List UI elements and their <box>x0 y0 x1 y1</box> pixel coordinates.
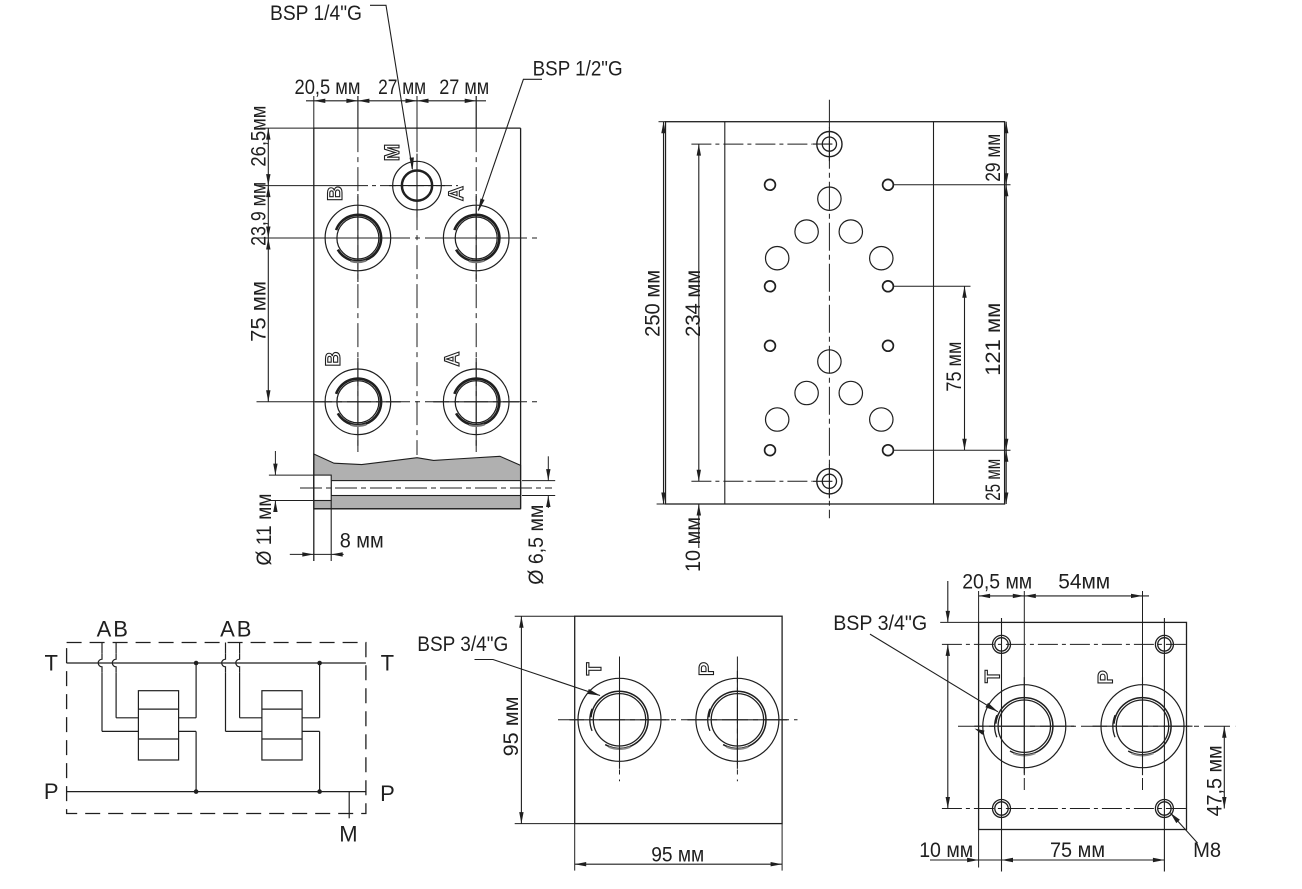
svg-text:A: A <box>97 617 112 642</box>
svg-text:BSP 3/4"G: BSP 3/4"G <box>833 611 927 635</box>
svg-text:75 мм: 75 мм <box>1050 838 1105 862</box>
svg-text:20,5 мм: 20,5 мм <box>962 570 1032 594</box>
svg-text:B: B <box>322 351 345 366</box>
svg-text:8 мм: 8 мм <box>340 529 384 553</box>
svg-text:234 мм: 234 мм <box>681 270 705 337</box>
svg-text:P: P <box>1094 670 1117 684</box>
svg-text:29 мм: 29 мм <box>981 134 1005 182</box>
svg-text:A: A <box>445 186 468 201</box>
svg-text:47,5 мм: 47,5 мм <box>1203 745 1227 816</box>
svg-text:54мм: 54мм <box>1058 570 1110 594</box>
svg-text:T: T <box>381 651 394 676</box>
svg-text:BSP 1/2"G: BSP 1/2"G <box>533 56 623 80</box>
svg-text:25 мм: 25 мм <box>981 459 1005 501</box>
svg-text:P: P <box>44 779 59 804</box>
svg-text:M8: M8 <box>1193 838 1221 862</box>
svg-text:B: B <box>237 617 252 642</box>
svg-text:95 мм: 95 мм <box>499 696 523 756</box>
svg-text:Ø 6,5 мм: Ø 6,5 мм <box>524 505 548 585</box>
svg-text:250 мм: 250 мм <box>640 270 664 337</box>
svg-text:75 мм: 75 мм <box>942 342 966 392</box>
svg-text:10 мм: 10 мм <box>681 517 705 572</box>
svg-text:20,5 мм: 20,5 мм <box>295 75 361 99</box>
svg-text:75 мм: 75 мм <box>246 281 270 342</box>
svg-text:Ø 11 мм: Ø 11 мм <box>252 494 276 566</box>
svg-text:A: A <box>220 617 235 642</box>
svg-text:10 мм: 10 мм <box>919 838 973 862</box>
svg-text:P: P <box>380 781 395 806</box>
svg-text:P: P <box>695 662 718 676</box>
svg-text:27 мм: 27 мм <box>378 75 426 99</box>
svg-text:BSP 3/4"G: BSP 3/4"G <box>417 632 508 656</box>
svg-text:26,5мм: 26,5мм <box>246 106 270 167</box>
svg-text:27 мм: 27 мм <box>439 75 489 99</box>
svg-text:B: B <box>324 186 347 201</box>
svg-text:M: M <box>339 822 357 847</box>
svg-text:T: T <box>583 662 606 675</box>
svg-text:T: T <box>44 651 57 676</box>
svg-text:23,9 мм: 23,9 мм <box>246 182 270 246</box>
svg-text:BSP 1/4"G: BSP 1/4"G <box>270 1 362 25</box>
svg-text:95 мм: 95 мм <box>651 842 704 866</box>
svg-text:T: T <box>982 670 1005 683</box>
svg-text:B: B <box>113 617 128 642</box>
svg-text:121 мм: 121 мм <box>981 303 1005 376</box>
svg-text:M: M <box>381 144 404 162</box>
svg-text:A: A <box>441 351 464 366</box>
